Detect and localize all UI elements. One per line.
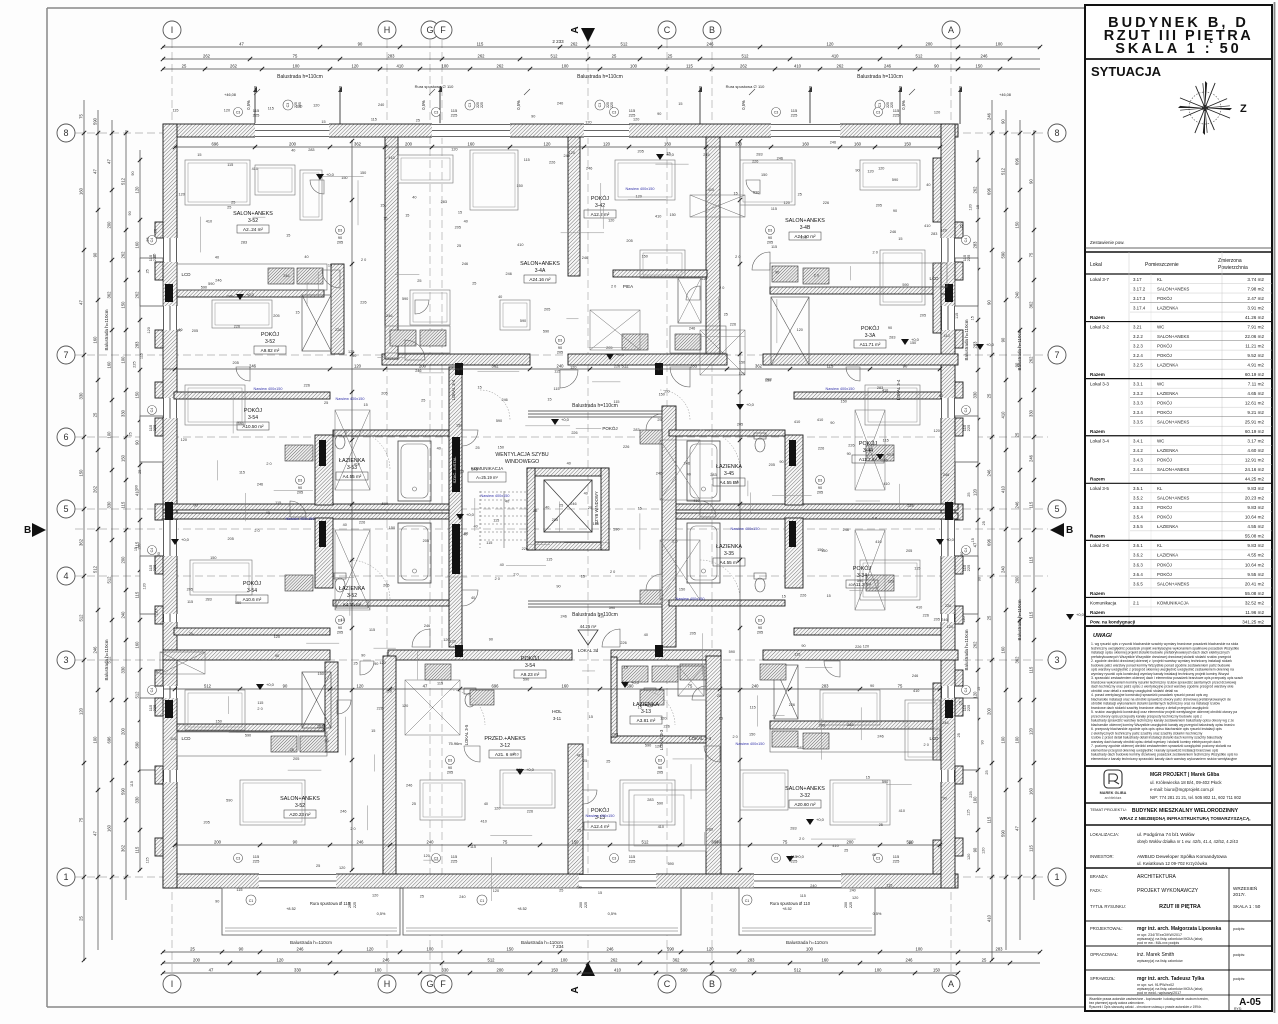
svg-text:8: 8 <box>1054 128 1059 138</box>
svg-text:225: 225 <box>791 113 798 118</box>
lokal marker <box>578 630 598 645</box>
svg-text:POKÓJ: POKÓJ <box>1157 296 1172 301</box>
svg-text:150: 150 <box>642 254 648 258</box>
svg-text:3-52: 3-52 <box>295 803 305 809</box>
svg-text:0,5%: 0,5% <box>421 100 426 110</box>
svg-text:Lokal 3-6: Lokal 3-6 <box>1090 543 1109 548</box>
svg-text:podpis:: podpis: <box>1233 977 1245 981</box>
wall v3 shaft <box>449 367 462 647</box>
svg-text:7.98 m2: 7.98 m2 <box>1247 286 1264 291</box>
svg-text:200: 200 <box>497 968 505 973</box>
wall h5 right <box>770 721 940 729</box>
table <box>1085 247 1272 249</box>
svg-text:Rura spustowa ∅ 110: Rura spustowa ∅ 110 <box>415 84 455 89</box>
svg-text:LOKAL 3-4: LOKAL 3-4 <box>451 379 456 400</box>
svg-text:25: 25 <box>724 313 728 317</box>
svg-text:115: 115 <box>437 681 443 685</box>
svg-text:7: 7 <box>63 350 68 360</box>
svg-text:40: 40 <box>926 183 930 187</box>
svg-text:115: 115 <box>1029 666 1034 673</box>
svg-text:120: 120 <box>142 583 146 589</box>
svg-text:15: 15 <box>908 841 912 845</box>
svg-text:100: 100 <box>375 968 383 973</box>
svg-text:pod nr ewid.: wpisowy/2017: pod nr ewid.: wpisowy/2017 <box>1137 991 1181 995</box>
svg-text:POKÓJ: POKÓJ <box>591 195 610 202</box>
svg-text:246: 246 <box>570 502 576 506</box>
svg-text:226: 226 <box>855 645 861 649</box>
svg-text:150: 150 <box>933 968 941 973</box>
svg-text:WENTYLACJA SZYBU: WENTYLACJA SZYBU <box>495 452 549 458</box>
svg-text:3.5.2: 3.5.2 <box>1133 496 1143 501</box>
svg-text:90: 90 <box>338 236 342 240</box>
svg-text:+0,0: +0,0 <box>561 417 570 422</box>
svg-text:225: 225 <box>966 424 971 431</box>
svg-text:120: 120 <box>603 142 611 147</box>
svg-text:205: 205 <box>606 346 612 350</box>
svg-text:9.83 m2: 9.83 m2 <box>1247 486 1264 491</box>
svg-text:LCD: LCD <box>929 276 939 281</box>
svg-text:SYTUACJA: SYTUACJA <box>1091 64 1162 79</box>
svg-text:POKÓJ: POKÓJ <box>1157 343 1172 348</box>
svg-text:15: 15 <box>638 706 642 710</box>
svg-text:WC: WC <box>1157 439 1164 444</box>
svg-text:226: 226 <box>623 445 629 449</box>
svg-text:+0,0: +0,0 <box>246 292 255 297</box>
svg-text:C: C <box>664 979 671 989</box>
svg-text:40: 40 <box>464 220 468 224</box>
svg-text:341.25 m2: 341.25 m2 <box>1242 619 1264 624</box>
svg-text:283: 283 <box>822 684 830 689</box>
svg-text:226: 226 <box>752 160 758 164</box>
svg-text:ŁAZIENKA: ŁAZIENKA <box>339 458 365 464</box>
svg-text:2 0: 2 0 <box>350 827 355 831</box>
svg-text:283: 283 <box>308 148 314 152</box>
svg-text:100: 100 <box>561 958 569 963</box>
svg-text:TEMAT PROJEKTU:: TEMAT PROJEKTU: <box>1090 807 1127 812</box>
svg-text:2 0: 2 0 <box>610 570 615 574</box>
svg-text:11.21 m2: 11.21 m2 <box>1245 343 1264 348</box>
svg-text:150: 150 <box>318 672 324 676</box>
svg-text:15: 15 <box>547 397 551 401</box>
svg-text:D3: D3 <box>338 229 343 233</box>
svg-text:590: 590 <box>609 606 615 610</box>
svg-text:+8.52: +8.52 <box>286 907 296 911</box>
svg-text:205: 205 <box>767 241 773 245</box>
svg-text:115: 115 <box>493 519 499 523</box>
svg-text:2017r.: 2017r. <box>1233 892 1246 897</box>
wall h3 right b <box>671 513 958 519</box>
svg-text:115: 115 <box>1029 844 1034 851</box>
svg-text:115: 115 <box>987 816 992 823</box>
svg-text:Nawiew 400x150: Nawiew 400x150 <box>586 814 615 818</box>
svg-text:4: 4 <box>63 571 68 581</box>
svg-text:2 0: 2 0 <box>672 539 677 543</box>
svg-text:160: 160 <box>93 336 98 344</box>
svg-text:200: 200 <box>121 727 126 735</box>
wall h2 right <box>763 354 958 365</box>
svg-text:25: 25 <box>987 393 992 398</box>
svg-text:246: 246 <box>884 64 892 69</box>
svg-text:90: 90 <box>893 209 897 213</box>
svg-text:15: 15 <box>134 547 138 551</box>
svg-text:410: 410 <box>614 968 622 973</box>
svg-text:115: 115 <box>470 845 476 849</box>
svg-text:15: 15 <box>719 717 723 721</box>
svg-text:B: B <box>709 979 715 989</box>
svg-text:BRANŻA:: BRANŻA: <box>1090 874 1108 879</box>
svg-text:3-54: 3-54 <box>248 415 258 421</box>
svg-text:e-mail: biuro@mgrprojekt.com.p: e-mail: biuro@mgrprojekt.com.pl <box>1150 787 1214 792</box>
svg-text:25: 25 <box>93 412 98 417</box>
svg-text:246: 246 <box>340 809 346 813</box>
svg-text:47: 47 <box>107 159 112 164</box>
svg-text:150: 150 <box>121 454 126 462</box>
svg-text:15: 15 <box>328 263 332 267</box>
svg-text:15: 15 <box>341 618 345 622</box>
wall v5 top <box>568 137 580 276</box>
svg-text:115: 115 <box>750 706 756 710</box>
svg-text:246: 246 <box>943 473 949 477</box>
svg-text:205: 205 <box>228 537 234 541</box>
wall kitchen right <box>770 287 947 294</box>
svg-text:Balustrada h=110cm: Balustrada h=110cm <box>104 639 109 680</box>
svg-text:115: 115 <box>554 387 560 391</box>
svg-text:120: 120 <box>274 635 280 639</box>
svg-text:590: 590 <box>201 286 207 290</box>
black accents: shaft fills and thresholds <box>319 440 326 466</box>
svg-text:25: 25 <box>798 193 802 197</box>
svg-text:10.64 m2: 10.64 m2 <box>1245 515 1265 520</box>
svg-text:25: 25 <box>153 229 157 233</box>
svg-text:200: 200 <box>419 364 427 369</box>
svg-text:225: 225 <box>610 102 614 108</box>
svg-text:120: 120 <box>277 958 285 963</box>
svg-text:512: 512 <box>794 968 802 973</box>
svg-text:15: 15 <box>624 666 628 670</box>
svg-text:SKALA 1 : 50: SKALA 1 : 50 <box>1115 41 1242 57</box>
svg-text:200: 200 <box>847 840 855 845</box>
svg-text:246: 246 <box>703 153 709 157</box>
axis markers bottom <box>163 975 181 993</box>
svg-text:0,5%: 0,5% <box>608 912 617 916</box>
svg-text:362: 362 <box>354 142 362 147</box>
svg-text:410: 410 <box>1001 411 1006 419</box>
svg-text:A3.81 m²: A3.81 m² <box>637 718 656 723</box>
svg-text:226: 226 <box>304 384 310 388</box>
svg-text:D3: D3 <box>768 229 773 233</box>
svg-text:KL: KL <box>1157 486 1163 491</box>
svg-text:150: 150 <box>235 601 241 605</box>
svg-text:90: 90 <box>987 300 992 305</box>
elevator shaft <box>527 468 609 476</box>
svg-text:590: 590 <box>245 733 251 737</box>
svg-text:ŁAZIENKA: ŁAZIENKA <box>1157 305 1178 310</box>
svg-text:40: 40 <box>500 563 504 567</box>
svg-text:120: 120 <box>570 366 576 370</box>
wall h2 mid a <box>382 354 530 365</box>
svg-text:410: 410 <box>817 418 823 422</box>
svg-text:25: 25 <box>231 200 235 204</box>
svg-text:115: 115 <box>257 701 263 705</box>
svg-text:115: 115 <box>477 42 484 47</box>
svg-text:7: 7 <box>1054 350 1059 360</box>
svg-text:512: 512 <box>916 54 924 59</box>
dimension lines left <box>83 100 85 960</box>
svg-text:226: 226 <box>571 431 577 435</box>
svg-text:115: 115 <box>554 369 560 373</box>
svg-text:225: 225 <box>966 564 971 571</box>
svg-text:205: 205 <box>737 422 743 426</box>
svg-text:150: 150 <box>761 173 767 177</box>
svg-text:115: 115 <box>121 501 126 508</box>
svg-text:3-3A: 3-3A <box>865 333 876 339</box>
svg-text:15: 15 <box>589 715 593 719</box>
svg-text:C4: C4 <box>964 238 968 243</box>
svg-text:90: 90 <box>177 329 181 333</box>
svg-text:100: 100 <box>107 431 112 439</box>
svg-text:240: 240 <box>427 840 435 845</box>
svg-text:Powierzchnia: Powierzchnia <box>1218 265 1248 271</box>
svg-text:Razem: Razem <box>1090 477 1105 482</box>
svg-text:150: 150 <box>669 213 675 217</box>
svg-text:225: 225 <box>152 564 157 571</box>
dimension lines bottom <box>163 951 1040 953</box>
svg-text:90: 90 <box>847 452 851 456</box>
kitchen counters <box>177 264 327 290</box>
svg-text:120: 120 <box>423 854 429 858</box>
svg-text:226: 226 <box>234 325 240 329</box>
svg-text:Balustrada h=110cm: Balustrada h=110cm <box>1017 599 1022 640</box>
svg-text:90: 90 <box>934 64 939 69</box>
svg-text:2 0: 2 0 <box>495 577 500 581</box>
svg-text:90: 90 <box>239 947 244 952</box>
svg-text:205: 205 <box>544 307 550 311</box>
svg-text:+0,0: +0,0 <box>631 680 640 685</box>
svg-text:I: I <box>171 979 174 989</box>
svg-text:246: 246 <box>912 674 918 678</box>
svg-text:120: 120 <box>967 854 971 860</box>
wardrobe crosses near walls <box>302 295 331 351</box>
svg-text:410: 410 <box>512 752 518 756</box>
svg-text:90: 90 <box>758 626 762 630</box>
svg-text:200: 200 <box>1015 576 1020 584</box>
svg-text:55.08 m2: 55.08 m2 <box>1245 591 1265 596</box>
svg-text:8: 8 <box>63 128 68 138</box>
svg-text:120: 120 <box>367 947 375 952</box>
svg-text:100: 100 <box>806 947 814 952</box>
svg-text:POKÓJ: POKÓJ <box>591 807 610 814</box>
svg-text:POKÓJ: POKÓJ <box>261 331 280 338</box>
svg-text:A: A <box>948 979 954 989</box>
svg-text:205: 205 <box>337 631 343 635</box>
svg-text:25: 25 <box>982 521 986 525</box>
svg-text:7.11 m2: 7.11 m2 <box>1248 381 1265 386</box>
svg-text:410: 410 <box>354 463 360 467</box>
svg-text:226: 226 <box>614 365 620 369</box>
svg-text:90: 90 <box>361 654 365 658</box>
svg-text:225: 225 <box>353 902 357 908</box>
svg-text:90: 90 <box>293 840 298 845</box>
svg-text:590: 590 <box>613 528 619 532</box>
wall h3 left a <box>163 504 457 510</box>
svg-text:150: 150 <box>498 446 504 450</box>
svg-text:115: 115 <box>135 591 140 598</box>
svg-text:NIP: 774 281 21 21, tel. 505 8: NIP: 774 281 21 21, tel. 505 802 11, 602… <box>1150 795 1242 800</box>
svg-text:25: 25 <box>354 661 358 665</box>
svg-text:246: 246 <box>283 274 289 278</box>
svg-text:25: 25 <box>1015 432 1020 437</box>
svg-text:200: 200 <box>844 902 848 908</box>
svg-text:D3: D3 <box>658 759 663 763</box>
svg-text:246: 246 <box>1029 454 1034 462</box>
svg-text:115: 115 <box>955 313 959 319</box>
svg-text:410: 410 <box>883 482 889 486</box>
svg-text:3.21: 3.21 <box>1133 324 1142 329</box>
svg-text:115: 115 <box>486 541 492 545</box>
svg-text:25: 25 <box>967 493 971 497</box>
svg-text:410: 410 <box>916 605 922 609</box>
svg-text:POKÓJ: POKÓJ <box>1157 458 1172 463</box>
svg-text:150: 150 <box>739 361 745 365</box>
svg-text:200: 200 <box>214 840 222 845</box>
svg-text:40: 40 <box>498 295 502 299</box>
svg-text:696: 696 <box>1015 157 1020 165</box>
svg-text:A: A <box>948 25 954 35</box>
svg-text:A: A <box>570 26 581 33</box>
svg-text:LOKAL 3-4: LOKAL 3-4 <box>896 379 901 400</box>
wall h4b left <box>174 628 330 635</box>
svg-text:240: 240 <box>121 611 126 619</box>
svg-text:40: 40 <box>304 255 308 259</box>
svg-text:246: 246 <box>1015 501 1020 509</box>
svg-text:40: 40 <box>484 802 488 806</box>
svg-text:246: 246 <box>941 618 947 622</box>
svg-text:115: 115 <box>733 480 739 484</box>
svg-text:+0,0: +0,0 <box>946 537 955 542</box>
svg-text:512: 512 <box>204 684 212 689</box>
svg-text:246: 246 <box>383 958 391 963</box>
dimension lines top <box>163 46 1040 48</box>
svg-text:C3: C3 <box>876 857 881 861</box>
svg-text:90: 90 <box>275 654 279 658</box>
svg-text:512: 512 <box>551 54 559 59</box>
branza faza <box>1228 868 1230 1011</box>
svg-text:25: 25 <box>657 418 661 422</box>
wall right outer <box>941 124 955 888</box>
svg-text:90: 90 <box>939 394 943 398</box>
svg-text:+8.52: +8.52 <box>782 907 792 911</box>
svg-text:25: 25 <box>472 282 476 286</box>
svg-text:7.91 m2: 7.91 m2 <box>1247 324 1264 329</box>
svg-text:40: 40 <box>266 511 270 515</box>
svg-text:25: 25 <box>844 849 848 853</box>
svg-text:41.26 m2: 41.26 m2 <box>1245 315 1265 320</box>
svg-text:590: 590 <box>238 422 244 426</box>
svg-text:115: 115 <box>914 566 920 570</box>
svg-text:150: 150 <box>593 522 599 526</box>
svg-text:2 0: 2 0 <box>361 258 366 262</box>
svg-text:120: 120 <box>296 104 302 108</box>
svg-text:225: 225 <box>480 102 484 108</box>
svg-text:ŁAZIENKA: ŁAZIENKA <box>1157 524 1178 529</box>
svg-text:+46,08: +46,08 <box>999 93 1011 97</box>
svg-text:362: 362 <box>1015 656 1020 664</box>
svg-text:362: 362 <box>121 844 126 852</box>
svg-text:2 0: 2 0 <box>266 462 271 466</box>
svg-text:410: 410 <box>730 968 738 973</box>
svg-text:25: 25 <box>190 947 195 952</box>
svg-text:330: 330 <box>121 666 126 674</box>
svg-text:115: 115 <box>187 600 193 604</box>
svg-text:240: 240 <box>1001 565 1006 573</box>
svg-text:POKÓJ: POKÓJ <box>521 655 540 662</box>
svg-text:+0,0: +0,0 <box>526 767 535 772</box>
svg-text:INWESTOR:: INWESTOR: <box>1090 854 1114 859</box>
svg-text:115: 115 <box>275 501 281 505</box>
svg-text:2 0: 2 0 <box>257 707 262 711</box>
svg-text:590: 590 <box>226 798 232 802</box>
svg-text:C4: C4 <box>964 548 968 553</box>
svg-text:90: 90 <box>558 346 562 350</box>
svg-text:410: 410 <box>832 844 838 848</box>
svg-text:15: 15 <box>598 891 602 895</box>
svg-text:15: 15 <box>827 594 831 598</box>
svg-text:SALON+ANEKS: SALON+ANEKS <box>233 211 273 217</box>
svg-text:120: 120 <box>968 204 972 210</box>
svg-text:11.96 m2: 11.96 m2 <box>1245 610 1264 615</box>
svg-text:590: 590 <box>523 677 529 681</box>
svg-text:POKÓJ: POKÓJ <box>1157 562 1172 567</box>
bath shaft right top <box>785 435 803 505</box>
svg-text:0,5%: 0,5% <box>741 100 746 110</box>
svg-text:B: B <box>709 25 715 35</box>
svg-text:Razem: Razem <box>1090 610 1105 615</box>
wall h3 left b <box>163 513 457 519</box>
svg-text:590: 590 <box>135 741 140 749</box>
svg-text:0,5%: 0,5% <box>246 100 251 110</box>
svg-text:+0,0: +0,0 <box>616 352 625 357</box>
dimension lines right <box>991 100 993 960</box>
svg-text:9.55 m2: 9.55 m2 <box>1247 572 1264 577</box>
svg-text:240: 240 <box>557 364 565 369</box>
svg-text:25: 25 <box>583 759 587 763</box>
svg-text:115: 115 <box>130 781 134 787</box>
svg-text:225: 225 <box>132 361 136 367</box>
svg-text:25: 25 <box>138 470 142 474</box>
svg-text:90: 90 <box>193 503 197 507</box>
svg-text:590: 590 <box>857 579 863 583</box>
svg-text:3-12: 3-12 <box>500 743 510 749</box>
svg-text:3.3.1: 3.3.1 <box>1133 381 1143 386</box>
svg-text:120: 120 <box>451 147 457 151</box>
svg-text:115: 115 <box>145 857 149 863</box>
svg-text:150: 150 <box>749 733 755 737</box>
svg-text:40: 40 <box>849 583 853 587</box>
svg-text:24.16 m2: 24.16 m2 <box>1245 467 1265 472</box>
svg-text:3.74 m2: 3.74 m2 <box>1247 277 1264 282</box>
bath wall left bottom <box>333 600 449 606</box>
svg-text:3.6.3: 3.6.3 <box>1133 562 1143 567</box>
svg-text:246: 246 <box>607 947 615 952</box>
svg-text:ul. Kwiatkowa 12 09-702 Krzyż: ul. Kwiatkowa 12 09-702 Krzyżówka <box>1137 861 1208 866</box>
svg-text:205: 205 <box>273 314 279 318</box>
svg-text:25: 25 <box>879 823 883 827</box>
wall h4 mid a <box>388 650 572 660</box>
svg-text:75: 75 <box>293 54 298 59</box>
svg-text:410: 410 <box>517 243 523 247</box>
svg-text:15: 15 <box>405 213 409 217</box>
svg-text:15: 15 <box>977 687 981 691</box>
